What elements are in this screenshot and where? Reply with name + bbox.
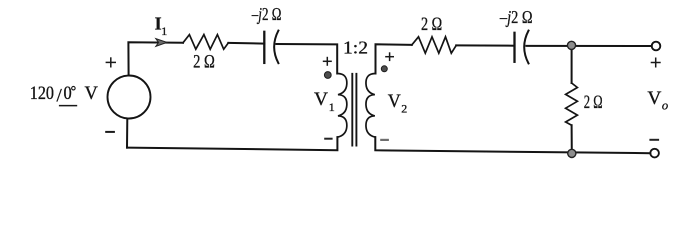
polarity dot secondary winding: [381, 66, 387, 72]
polarity minus of V2: [380, 139, 389, 141]
polarity dot primary winding: [324, 72, 331, 79]
polarity plus of V2: [385, 52, 394, 61]
current arrow I1 head: [156, 39, 167, 47]
polarity plus of V1: [323, 57, 332, 66]
svg-text:1:2: 1:2: [343, 37, 368, 57]
svg-text:V: V: [388, 92, 402, 112]
svg-text:2 Ω: 2 Ω: [193, 53, 215, 73]
wire secondary riser to resistor R2: [376, 44, 412, 73]
svg-text:V: V: [647, 89, 662, 109]
capacitor C2 left plate: [513, 33, 515, 62]
underline of angle notation: [59, 105, 77, 107]
polarity minus of output: [649, 139, 659, 141]
polarity minus of source: [105, 131, 115, 133]
svg-text:–j2 Ω: –j2 Ω: [251, 4, 281, 24]
resistor R1 zigzag: [183, 35, 228, 50]
transformer T1 primary coil: [338, 74, 347, 138]
svg-text:1: 1: [161, 24, 167, 38]
polarity plus of source: [106, 57, 116, 67]
wire source top to resistor R1: [128, 42, 183, 75]
svg-text:o: o: [662, 98, 668, 112]
svg-text:2 Ω: 2 Ω: [584, 93, 603, 113]
svg-text:0: 0: [64, 84, 72, 104]
wire C1 to transformer primary riser: [276, 44, 337, 74]
polarity plus of output: [651, 58, 661, 68]
capacitor C1 left plate: [263, 32, 265, 63]
svg-text:2 Ω: 2 Ω: [421, 15, 442, 35]
svg-text:120: 120: [30, 84, 54, 104]
node B junction dot bottom: [568, 149, 576, 157]
svg-text:–j2 Ω: –j2 Ω: [499, 7, 532, 27]
wire primary coil bottom to bottom rail: [127, 137, 337, 150]
capacitor C1 right curved plate: [274, 31, 278, 64]
polarity minus of V1: [324, 138, 332, 140]
output terminal bottom circle: [650, 149, 659, 158]
wire R1 to capacitor C1: [228, 42, 264, 45]
transformer core line 2: [355, 74, 357, 146]
resistor R2 zigzag: [412, 37, 456, 53]
svg-text:V: V: [314, 90, 329, 110]
wire C2 to node A and output terminal top: [526, 45, 651, 47]
svg-text:2: 2: [401, 101, 407, 115]
capacitor C2 right curved plate: [524, 31, 528, 64]
wire R2 to capacitor C2: [456, 44, 514, 46]
svg-text:/: /: [57, 86, 63, 107]
svg-text:V: V: [85, 84, 99, 104]
wire secondary coil bottom to bottom rail: [375, 137, 650, 153]
svg-text:1: 1: [329, 100, 335, 114]
resistor R3 top lead: [571, 45, 573, 83]
voltage source Vs circle: [108, 76, 151, 119]
output terminal top circle: [652, 42, 661, 51]
wire source bottom to primary bottom corner: [126, 119, 128, 148]
transformer T1 secondary coil: [366, 74, 375, 138]
transformer core line 1: [351, 74, 353, 146]
resistor R3 bottom lead: [571, 125, 573, 153]
degree mark of source label: [72, 86, 76, 90]
node A junction dot top: [567, 41, 575, 49]
resistor R3 vertical zigzag: [566, 83, 578, 125]
